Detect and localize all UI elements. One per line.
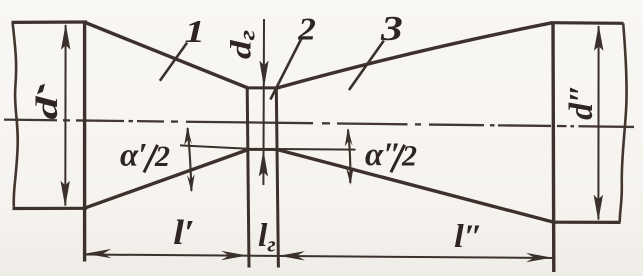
dimension d'' upper arrowhead <box>594 25 603 51</box>
dimension d_g upper arrowhead (points down to throat top) <box>259 61 268 88</box>
angle reference line right (parallel to axis) <box>277 148 356 151</box>
label alpha'/2 <box>120 137 170 173</box>
dimension d'' lower arrowhead <box>594 195 603 221</box>
leader stroke for 2 <box>270 39 301 100</box>
converging cone 1 top outline <box>84 22 248 88</box>
position label 2 <box>297 12 316 47</box>
label l'' <box>454 219 483 255</box>
l'' left arrowhead <box>279 251 305 260</box>
label l_g <box>258 217 276 256</box>
label d' <box>30 95 65 120</box>
left joint line (pipe/cone flange, also l' extension line) <box>83 21 86 261</box>
svg-text:2: 2 <box>401 140 417 173</box>
l' left arrowhead <box>85 249 111 258</box>
diverging cone 3 bottom outline <box>277 150 553 223</box>
throat bottom edge <box>246 148 279 151</box>
dimension d_g lower arrowhead (points up to throat bottom) <box>259 150 268 177</box>
dimension d_g line (through throat) <box>262 19 265 185</box>
svg-text:l′: l′ <box>173 213 195 252</box>
position label 3 <box>380 9 403 48</box>
left pipe break (wavy) edge <box>13 23 18 207</box>
right joint line (cone/pipe flange, also l'' extension line) <box>551 22 555 272</box>
left pipe top edge <box>12 20 88 24</box>
l'' right arrowhead <box>526 253 552 262</box>
throat top edge <box>246 86 279 89</box>
svg-text:2: 2 <box>154 140 170 173</box>
converging cone 1 bottom outline <box>84 150 248 209</box>
leader stroke for 3 <box>349 41 384 90</box>
svg-text:α″: α″ <box>365 137 401 173</box>
label d' prime tick <box>37 84 45 94</box>
l' right arrowhead <box>221 251 247 260</box>
bottom dimension line (l' l_g l'') <box>85 255 554 259</box>
dimension d'' line <box>597 26 599 220</box>
angle arc left with arrowheads <box>188 128 192 191</box>
svg-text:d″: d″ <box>563 84 600 120</box>
right pipe break (wavy) edge <box>620 23 627 222</box>
angle arc left upper arrowhead <box>184 127 192 145</box>
svg-text:α′: α′ <box>120 137 148 173</box>
throat left wall (extends down as extension line) <box>247 88 249 268</box>
left pipe bottom edge <box>13 207 88 210</box>
right pipe bottom edge <box>552 221 621 224</box>
angle arc left lower arrowhead <box>187 174 195 192</box>
angle arc right with arrowheads <box>348 130 350 184</box>
centerline (pipe axis, dash-dot) <box>4 120 634 127</box>
svg-text:l″: l″ <box>454 219 483 255</box>
throat right wall (extends down as extension line) <box>276 88 278 268</box>
right pipe top edge <box>551 21 624 25</box>
dimension d' lower arrowhead <box>61 181 70 207</box>
dimension d' upper arrowhead <box>61 24 70 50</box>
label d_g <box>225 30 260 59</box>
angle reference line left (parallel to axis) <box>180 145 248 148</box>
diverging cone 3 top outline <box>277 23 553 88</box>
leader stroke for 1 <box>160 43 187 81</box>
position label 1 <box>185 13 205 49</box>
label l' <box>173 213 195 252</box>
svg-text:d: d <box>30 95 65 120</box>
label alpha''/2 <box>365 137 417 173</box>
dimension d' line <box>64 25 66 206</box>
angle arc right upper arrowhead <box>345 128 353 146</box>
angle arc right lower arrowhead <box>346 167 354 185</box>
